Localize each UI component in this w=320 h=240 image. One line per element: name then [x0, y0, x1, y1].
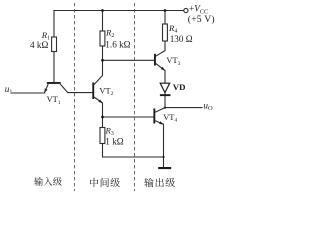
junction dot R2/rail: [101, 9, 104, 12]
wire VT2 emitter column: [102, 103, 104, 117]
junction dot output node: [164, 107, 166, 109]
wire diode to output node: [164, 93, 166, 108]
svg-text:130 Ω: 130 Ω: [170, 34, 193, 44]
junction dot VT4 base branch: [101, 116, 104, 119]
wire input u1: [12, 92, 44, 94]
stage label 中间级: [90, 178, 98, 187]
transistor VT3: [154, 51, 165, 71]
wire R2 bottom to VT2 collector: [102, 46, 104, 76]
transistor VT1: [44, 82, 68, 93]
wire VT3 emitter to diode: [164, 70, 166, 83]
junction dot R4/rail: [164, 9, 167, 12]
wire R1 bottom to VT1 base: [53, 52, 55, 83]
svg-text:1.6 kΩ: 1.6 kΩ: [105, 40, 130, 50]
dashed stage divider 2: [134, 3, 136, 191]
wire R1 column (rail to R1 top): [53, 11, 55, 38]
svg-text:VD: VD: [173, 82, 186, 92]
svg-text:(+5 V): (+5 V): [188, 14, 215, 25]
wire R4 bottom to VT3 collector: [164, 41, 166, 51]
ground: [158, 167, 171, 169]
stage label 输出级: [144, 178, 153, 187]
resistor R2: [100, 31, 105, 46]
svg-text:4 kΩ: 4 kΩ: [30, 40, 48, 50]
wire VT2 emitter node to VT4 base: [103, 116, 154, 118]
svg-text:1 kΩ: 1 kΩ: [105, 137, 123, 147]
dashed stage divider 1: [74, 3, 76, 191]
wire VCC rail: [54, 10, 184, 12]
VCC terminal circle: [184, 8, 188, 12]
transistor VT4: [153, 108, 165, 125]
resistor R3: [100, 128, 105, 144]
junction dot VT3 base branch: [101, 59, 104, 62]
wire R3 bottom to ground run: [103, 144, 163, 158]
resistor R4: [163, 24, 168, 41]
wire VT4 emitter to ground: [163, 124, 165, 167]
wire VT2 collector node to VT3 base: [103, 59, 155, 61]
wire R2 column (rail to R2 top): [102, 11, 104, 32]
wire VT1 collector to VT2 base: [68, 92, 93, 94]
stage label 输入级: [34, 177, 43, 186]
resistor R1: [52, 37, 57, 52]
wire node to R3 top: [102, 117, 104, 128]
wire output node to terminal: [165, 107, 202, 109]
junction dot ground tee: [162, 156, 164, 158]
diode VD: [160, 83, 171, 96]
wire R4 column (rail to R4 top): [164, 11, 166, 25]
transistor VT2: [92, 76, 102, 104]
